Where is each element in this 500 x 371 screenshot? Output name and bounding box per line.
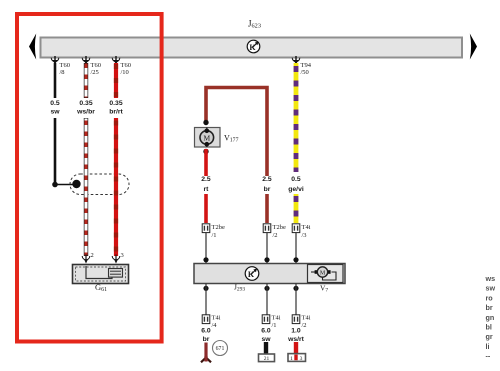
wire 6.0 br ground stub xyxy=(204,343,207,359)
node below J293 track 2 xyxy=(264,286,269,291)
wire 0.5 sw upper segment xyxy=(54,63,57,98)
wire 2.5 rt upper segment xyxy=(204,149,208,176)
svg-text:M: M xyxy=(203,134,210,143)
wire 0.35 ws/br lower segment xyxy=(84,118,88,256)
wire 0.35 br/rt lower segment xyxy=(114,118,118,256)
svg-text:2: 2 xyxy=(91,252,94,259)
pump V177 xyxy=(195,128,221,148)
svg-text:T60: T60 xyxy=(91,62,101,69)
svg-text:0.5: 0.5 xyxy=(50,100,60,107)
svg-text:T60: T60 xyxy=(121,62,131,69)
connector symbol K in J293 xyxy=(245,267,259,281)
wire J293 to T4i/2 xyxy=(295,284,297,315)
highlight box xyxy=(17,14,162,342)
svg-text:V177: V177 xyxy=(224,134,239,144)
wire 0.35 br/rt upper segment xyxy=(114,63,118,98)
pin arrow into G61 pin 3 xyxy=(112,252,124,264)
svg-text:6.0: 6.0 xyxy=(261,328,271,335)
svg-text:sw: sw xyxy=(486,284,496,293)
svg-text:ws: ws xyxy=(485,274,496,283)
svg-text:gr: gr xyxy=(486,332,493,341)
svg-text:/4: /4 xyxy=(212,322,218,329)
svg-text:/2: /2 xyxy=(273,232,278,239)
wire J293 to T4i/1 xyxy=(266,284,268,315)
svg-text:br: br xyxy=(486,303,493,312)
svg-text:T4i: T4i xyxy=(272,315,281,322)
svg-text:V7: V7 xyxy=(320,284,328,294)
svg-text:/2: /2 xyxy=(302,322,307,329)
connector T4i/1 xyxy=(262,315,281,330)
svg-text:/50: /50 xyxy=(301,69,309,76)
shielding (dashed stadium) xyxy=(70,174,129,195)
svg-text:0.35: 0.35 xyxy=(79,100,92,107)
svg-text:T4i: T4i xyxy=(302,315,311,322)
terminal T94/50 xyxy=(292,56,312,76)
svg-text:3: 3 xyxy=(121,252,124,259)
wire 0.5 sw lower segment xyxy=(54,118,57,185)
connector T4i/3 xyxy=(292,224,311,239)
svg-text:T2be: T2be xyxy=(273,224,286,231)
svg-text:bl: bl xyxy=(486,323,492,332)
wire into J293 track 3 xyxy=(295,233,297,263)
svg-text:3: 3 xyxy=(300,356,303,362)
sender G61 xyxy=(73,265,129,284)
svg-text:/8: /8 xyxy=(60,69,65,76)
svg-text:--: -- xyxy=(486,352,491,361)
svg-text:6.0: 6.0 xyxy=(201,328,211,335)
connector T4i/4 xyxy=(202,315,221,330)
wire 0.5 ge/vi lower segment xyxy=(294,194,299,223)
node on sw wire xyxy=(52,182,58,188)
svg-text:br: br xyxy=(264,186,271,193)
control unit J293 xyxy=(194,264,345,284)
terminal T60/25 xyxy=(82,56,101,76)
fan V7 (inside J293 bar) xyxy=(308,265,344,283)
svg-text:/10: /10 xyxy=(121,69,129,76)
svg-text:/1: /1 xyxy=(272,322,277,329)
wire 1.0 ws/rt stub xyxy=(294,342,298,354)
svg-text:T94: T94 xyxy=(301,62,312,69)
svg-text:sw: sw xyxy=(261,336,271,343)
svg-text:2.5: 2.5 xyxy=(262,176,272,183)
connector T2be/2 xyxy=(263,224,286,239)
node track 3 xyxy=(293,257,298,262)
wire br bridge (V177 to track 2) xyxy=(206,88,267,177)
svg-text:T2be: T2be xyxy=(212,224,225,231)
wire into J293 track 2 xyxy=(266,233,268,263)
wire 0.5 ge/vi upper segment xyxy=(294,63,299,172)
node below J293 track 3 xyxy=(293,286,298,291)
ground point 671 xyxy=(213,341,228,356)
node above V177 xyxy=(203,120,208,125)
wire into J293 track 1 xyxy=(205,233,207,263)
terminal T60/10 xyxy=(112,56,131,76)
colour legend xyxy=(485,274,496,361)
wire 0.35 ws/br upper segment xyxy=(84,63,88,98)
wire 2.5 rt lower segment xyxy=(204,194,208,223)
svg-text:1: 1 xyxy=(290,356,293,362)
svg-text:li: li xyxy=(486,342,490,351)
ground symbol xyxy=(201,356,211,362)
svg-text:br/rt: br/rt xyxy=(109,109,123,116)
svg-text:T4i: T4i xyxy=(212,315,221,322)
terminal T60/8 xyxy=(51,56,70,76)
node below J293 track 1 xyxy=(203,286,208,291)
svg-text:/1: /1 xyxy=(212,232,217,239)
svg-text:ge/vi: ge/vi xyxy=(288,186,304,193)
svg-text:1.0: 1.0 xyxy=(291,328,301,335)
svg-text:ws/rt: ws/rt xyxy=(287,336,305,343)
connector symbol K in bus bar J623 xyxy=(247,40,260,53)
wire 2.5 br lower segment xyxy=(265,194,269,223)
continuation box 21 xyxy=(259,354,275,362)
wire J293 to T4i/4 xyxy=(205,284,207,315)
svg-text:br: br xyxy=(203,336,210,343)
bus bar J623 xyxy=(29,34,477,60)
svg-text:M: M xyxy=(320,271,326,277)
svg-text:sw: sw xyxy=(50,109,60,116)
svg-text:T4i: T4i xyxy=(302,224,311,231)
svg-text:0.5: 0.5 xyxy=(291,176,301,183)
svg-text:/3: /3 xyxy=(302,232,307,239)
wire 6.0 sw stub xyxy=(264,342,268,355)
continuation box 13 xyxy=(288,354,306,363)
pin arrow into G61 pin 2 xyxy=(82,252,94,264)
svg-text:gn: gn xyxy=(486,313,495,322)
svg-text:T60: T60 xyxy=(60,62,70,69)
wire shield link xyxy=(55,184,74,186)
svg-text:21: 21 xyxy=(264,356,270,362)
svg-text:0.35: 0.35 xyxy=(109,100,122,107)
svg-text:ro: ro xyxy=(486,293,494,302)
node below V177 xyxy=(203,149,208,154)
connector T4i/2 xyxy=(292,315,311,330)
svg-text:ws/br: ws/br xyxy=(76,109,95,116)
svg-text:/25: /25 xyxy=(91,69,99,76)
node track 1 xyxy=(203,257,208,262)
svg-text:671: 671 xyxy=(216,346,225,352)
connector T2be/1 xyxy=(202,224,225,239)
svg-text:rt: rt xyxy=(204,186,210,193)
svg-text:J623: J623 xyxy=(248,19,261,30)
node shield connection xyxy=(72,180,80,188)
svg-text:2.5: 2.5 xyxy=(201,176,211,183)
node track 2 xyxy=(264,257,269,262)
